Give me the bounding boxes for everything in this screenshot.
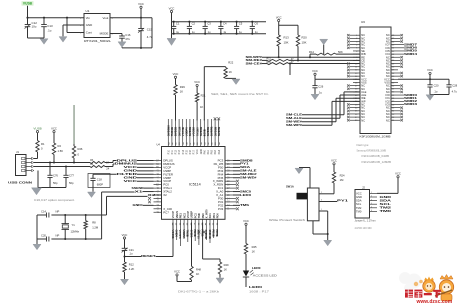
svg-text:PD1: PD1 [212, 213, 216, 219]
svg-text:1: 1 [371, 192, 372, 194]
svg-text:C21: C21 [129, 248, 134, 252]
svg-text:VCC: VCC [312, 69, 318, 73]
svg-text:K9F1G08U0M_1GMB: K9F1G08U0M_1GMB [360, 134, 391, 138]
svg-text:2: 2 [371, 196, 372, 198]
svg-text:PA4: PA4 [218, 149, 221, 154]
svg-text:SMD4B: SMD4B [199, 127, 203, 136]
svg-text:TM1B0: TM1B0 [195, 127, 199, 136]
svg-text:www.dzsc.com: www.dzsc.com [416, 299, 453, 304]
svg-text:VCC: VCC [427, 68, 433, 72]
svg-text:VCC: VCC [138, 2, 144, 6]
svg-text:Vout: Vout [103, 16, 109, 20]
svg-text:Samsung K9F0808U0B_16MB: Samsung K9F0808U0B_16MB [357, 149, 387, 153]
svg-text:2: 2 [321, 192, 322, 194]
svg-text:USBP: USBP [190, 211, 194, 218]
svg-text:PB0: PB0 [201, 213, 205, 219]
svg-text:VCC3B: VCC3B [181, 127, 185, 136]
svg-text:TMD1B: TMD1B [170, 127, 174, 136]
svg-text:P33: P33 [218, 207, 224, 211]
svg-text:C5: C5 [239, 22, 243, 26]
svg-text:LED0: LED0 [240, 193, 252, 197]
svg-text:R24: R24 [340, 173, 345, 177]
svg-text:4: 4 [371, 203, 372, 205]
svg-text:R22: R22 [228, 61, 233, 65]
svg-text:1K: 1K [200, 105, 203, 109]
svg-text:X2: X2 [148, 193, 157, 197]
svg-text:C18: C18 [97, 177, 102, 181]
svg-text:TM3B: TM3B [186, 230, 190, 237]
svg-text:PD0B: PD0B [215, 230, 219, 237]
svg-text:.1u: .1u [434, 90, 438, 94]
svg-text:VCC: VCC [173, 72, 179, 76]
svg-text:C2: C2 [192, 22, 196, 26]
svg-text:PA1: PA1 [208, 213, 212, 218]
svg-text:Vin: Vin [86, 16, 91, 20]
svg-text:U4: U4 [157, 142, 161, 146]
svg-text:NC: NC [361, 118, 365, 122]
svg-text:SMCLB: SMCLB [177, 127, 181, 137]
svg-text:P13: P13 [179, 149, 181, 154]
svg-text:P10: P10 [168, 149, 170, 154]
svg-text:USDP0: USDP0 [185, 127, 189, 136]
svg-text:3: 3 [371, 199, 372, 201]
svg-text:GND: GND [86, 23, 92, 27]
svg-text:10K: 10K [302, 41, 307, 45]
svg-text:R45: R45 [252, 245, 257, 249]
svg-text:GND0: GND0 [175, 230, 179, 238]
svg-text:PC7: PC7 [163, 210, 169, 214]
svg-text:1608 : P17: 1608 : P17 [249, 289, 270, 293]
svg-text:VCC: VCC [331, 159, 337, 163]
svg-text:C14: C14 [41, 209, 46, 213]
svg-text:GND1: GND1 [133, 203, 144, 207]
svg-text:VCC: VCC [122, 233, 128, 237]
svg-text:RESET: RESET [141, 254, 156, 258]
svg-text:R21: R21 [201, 93, 206, 97]
svg-text:VCCP8: VCCP8 [178, 230, 182, 239]
svg-text:Y1: Y1 [72, 223, 76, 227]
svg-text:PA0: PA0 [203, 149, 206, 154]
svg-text:LED0: LED0 [252, 266, 261, 270]
svg-text:1K: 1K [229, 70, 232, 74]
svg-text:PD0: PD0 [216, 213, 220, 219]
svg-text:PD1B: PD1B [212, 230, 216, 237]
svg-text:NC: NC [386, 118, 390, 122]
svg-text:SE0, SE1, SE5 mount the SST IC: SE0, SE1, SE5 mount the SST IC. [211, 92, 269, 96]
svg-text:C28: C28 [452, 84, 457, 88]
svg-text:C77: C77 [69, 173, 74, 177]
svg-text:50p: 50p [69, 181, 74, 185]
svg-text:C20: C20 [434, 84, 439, 88]
svg-text:LED0: LED0 [249, 285, 263, 289]
svg-text:C26: C26 [318, 85, 323, 89]
svg-text:C20: C20 [41, 233, 46, 237]
svg-text:12MHz: 12MHz [71, 230, 80, 234]
svg-text:47u: 47u [125, 37, 130, 41]
svg-text:1K: 1K [252, 249, 255, 253]
svg-text:SM-WE#: SM-WE# [240, 176, 257, 180]
svg-text:TM2: TM2 [356, 206, 362, 210]
svg-text:P16: P16 [190, 149, 192, 154]
svg-text:TMS: TMS [240, 203, 249, 207]
svg-text:C6: C6 [255, 22, 259, 26]
svg-text:R8: R8 [92, 220, 96, 224]
svg-text:SMD1B: SMD1B [208, 230, 212, 239]
svg-text:VCC: VCC [124, 179, 140, 183]
svg-text:U1: U1 [86, 9, 90, 13]
svg-text:SDA: SDA [356, 199, 362, 203]
svg-text:R26: R26 [78, 147, 83, 151]
svg-text:IC5114: IC5114 [189, 183, 201, 187]
svg-text:NP: NP [56, 233, 60, 237]
svg-text:GND: GND [356, 195, 362, 199]
svg-text:10u: 10u [32, 25, 37, 29]
svg-text:SCL: SCL [356, 202, 362, 206]
svg-text:50K: 50K [338, 50, 343, 54]
svg-text:USB CONN: USB CONN [8, 181, 33, 185]
svg-text:4I-P06 103 360: 4I-P06 103 360 [355, 226, 372, 230]
svg-text:BZ0B: BZ0B [203, 129, 207, 136]
svg-text:PY1: PY1 [337, 199, 349, 203]
svg-text:R48: R48 [196, 267, 201, 271]
svg-text:Write Protect Switch: Write Protect Switch [269, 218, 306, 222]
svg-text:SMD0B8: SMD0B8 [167, 125, 171, 136]
svg-text:DK(-67TK)-1 -- a 26Kb: DK(-67TK)-1 -- a 26Kb [178, 290, 220, 294]
svg-text:K9F2G08U0B_128MB: K9F2G08U0B_128MB [362, 160, 392, 164]
svg-text:Jumper 6_ 1.27mm: Jumper 6_ 1.27mm [355, 219, 377, 223]
svg-text:680P: 680P [97, 183, 103, 187]
svg-text:P14: P14 [183, 149, 185, 154]
svg-text:1K: 1K [196, 272, 199, 276]
svg-text:NC2: NC2 [182, 212, 186, 218]
svg-text:P17: P17 [194, 149, 196, 154]
svg-text:SMD5B: SMD5B [206, 127, 210, 136]
svg-text:SMD7B: SMD7B [217, 127, 221, 136]
svg-text:VCC: VCC [276, 15, 282, 19]
svg-text:P15: P15 [186, 149, 188, 154]
svg-text:VUSB: VUSB [23, 2, 33, 6]
svg-text:R15: R15 [267, 61, 272, 64]
svg-text:PC2: PC2 [193, 213, 197, 219]
svg-text:R49: R49 [224, 263, 229, 267]
svg-text:Flash type:: Flash type: [357, 143, 370, 147]
svg-text:VCC: VCC [395, 172, 401, 176]
svg-text:R20: R20 [302, 36, 308, 40]
svg-text:VUSB: VUSB [33, 126, 41, 130]
svg-text:PB1: PB1 [179, 213, 183, 219]
svg-text:VCCP: VCCP [171, 211, 175, 218]
svg-text:K9F1G08U0B_64MB: K9F1G08U0B_64MB [362, 154, 390, 158]
svg-text:VCC: VCC [243, 219, 249, 223]
svg-text:R14: R14 [309, 50, 314, 54]
svg-text:.1u: .1u [318, 91, 322, 95]
svg-text:R29: R29 [180, 85, 185, 89]
svg-text:SM-WP#: SM-WP# [286, 123, 303, 127]
svg-text:SMD3B: SMD3B [188, 127, 192, 136]
svg-text:.1u: .1u [47, 28, 51, 32]
svg-text:PB0B: PB0B [193, 230, 197, 237]
svg-text:USBN0: USBN0 [182, 230, 186, 240]
svg-text:50p: 50p [53, 181, 58, 185]
svg-text:1K: 1K [180, 90, 183, 94]
svg-text:X1: X1 [135, 189, 144, 193]
svg-text:ACCESS LED: ACCESS LED [253, 273, 277, 277]
svg-text:VCC: VCC [51, 126, 57, 130]
svg-text:VCCP: VCCP [186, 211, 190, 218]
svg-text:1.2M: 1.2M [92, 225, 99, 229]
svg-text:R13: R13 [284, 36, 290, 40]
svg-text:10K: 10K [284, 41, 289, 45]
svg-text:5: 5 [371, 207, 372, 209]
svg-text:VCC: VCC [356, 191, 362, 195]
svg-text:VBUS: VBUS [175, 211, 179, 218]
svg-text:1K: 1K [224, 268, 227, 272]
svg-text:R2: R2 [58, 144, 62, 148]
svg-text:R1: R1 [41, 142, 45, 146]
svg-text:TM0: TM0 [380, 209, 392, 213]
svg-text:SMD4: SMD4 [404, 52, 418, 56]
svg-text:1: 1 [321, 209, 322, 211]
svg-text:.1u: .1u [129, 252, 133, 256]
svg-text:X_INT0: X_INT0 [205, 209, 209, 218]
svg-text:X2: X2 [163, 193, 167, 197]
svg-text:C76: C76 [53, 173, 58, 177]
svg-text:PA1: PA1 [207, 149, 210, 154]
svg-text:VCC: VCC [169, 6, 175, 10]
svg-text:RTX201_50D2L: RTX201_50D2L [84, 39, 111, 43]
svg-text:VCC: VCC [197, 149, 199, 154]
svg-text:C1: C1 [176, 22, 180, 26]
svg-text:SW1A: SW1A [286, 184, 294, 188]
svg-text:C16,C17 option component.: C16,C17 option component. [34, 198, 75, 202]
svg-text:TM0: TM0 [356, 209, 362, 213]
svg-text:VCCB8: VCCB8 [192, 127, 196, 137]
svg-text:PA2: PA2 [211, 149, 214, 154]
svg-text:NP: NP [56, 209, 60, 213]
svg-text:GND: GND [201, 149, 203, 154]
svg-text:R12: R12 [129, 262, 134, 266]
svg-text:SMD2B: SMD2B [174, 127, 178, 136]
svg-text:SMD3: SMD3 [404, 102, 418, 106]
svg-text:C3: C3 [207, 22, 211, 26]
svg-text:MODE: MODE [100, 32, 109, 36]
svg-text:P12: P12 [176, 149, 178, 154]
svg-text:TM0: TM0 [197, 212, 201, 218]
svg-text:6: 6 [371, 210, 372, 212]
svg-text:1.5K: 1.5K [58, 149, 64, 153]
svg-text:U6: U6 [361, 20, 365, 24]
svg-text:C4: C4 [223, 22, 227, 26]
svg-text:VCC: VCC [174, 270, 180, 274]
svg-text:4.2K: 4.2K [129, 267, 135, 271]
svg-text:SM-CE#: SM-CE# [246, 61, 263, 65]
svg-text:J1: J1 [16, 150, 19, 154]
svg-text:PA3: PA3 [214, 149, 217, 154]
svg-text:3: 3 [321, 200, 322, 202]
svg-text:VCC: VCC [194, 80, 200, 84]
svg-text:SMD6B: SMD6B [213, 127, 217, 136]
svg-text:4.7u: 4.7u [452, 90, 458, 94]
svg-text:Cont: Cont [86, 31, 92, 35]
svg-text:SMRPB: SMRPB [210, 126, 214, 136]
